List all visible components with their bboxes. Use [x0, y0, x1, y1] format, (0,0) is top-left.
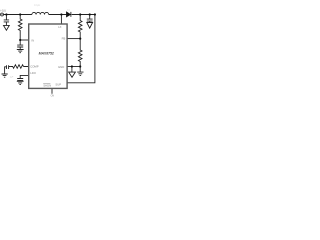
junction C3/rail	[89, 13, 91, 15]
wire FB pin	[67, 38, 80, 40]
junction C1/rail	[5, 13, 7, 15]
resistor R-IN x20	[18, 15, 22, 41]
ground triangle under C1	[4, 25, 10, 30]
svg-text:LDO: LDO	[30, 71, 37, 75]
capacitor C2	[17, 40, 23, 49]
wire rail after diode	[72, 14, 95, 16]
svg-text:+5V: +5V	[0, 9, 7, 13]
terminal plus mark	[1, 14, 3, 16]
background	[0, 0, 100, 100]
svg-text:COMP: COMP	[30, 64, 39, 68]
svg-text:10µH: 10µH	[34, 3, 40, 7]
resistor R-COMP horizontal	[10, 65, 28, 69]
wire LX	[60, 15, 62, 25]
junction IN node	[19, 39, 21, 41]
wire rail to diode	[49, 14, 67, 16]
ground triangle GND	[69, 72, 76, 77]
ground COMP three-line	[2, 74, 8, 77]
wire SHDN stub	[51, 89, 53, 94]
svg-text:SUP: SUP	[55, 82, 61, 86]
ground triangle C3	[87, 23, 93, 29]
resistor R2 bottom feedback	[78, 39, 82, 72]
diode D1	[67, 12, 71, 17]
junction SUP-net/rail	[94, 13, 96, 15]
IC U1 MAX8752 box	[29, 24, 67, 88]
inductor L1	[32, 12, 49, 14]
junction R1/rail	[79, 13, 81, 15]
svg-text:IN: IN	[31, 39, 34, 43]
capacitor C1 input left	[4, 15, 9, 26]
wire IN pin	[20, 39, 29, 41]
junction GND net left	[71, 65, 73, 67]
wire GND drop	[71, 67, 73, 73]
junction R-IN/rail	[19, 13, 21, 15]
input terminal VIN	[1, 13, 4, 16]
svg-text:FB: FB	[62, 37, 66, 41]
ground LDO three-line	[17, 81, 24, 84]
svg-text:SHDN: SHDN	[43, 84, 51, 88]
SHDN overline	[43, 82, 50, 84]
resistor R1 top feedback	[78, 15, 82, 39]
ground C2 three-line	[17, 50, 24, 53]
wire LDO pin	[20, 75, 29, 78]
junction GND net right	[79, 65, 81, 67]
capacitor C3 output	[87, 15, 93, 23]
wire SUP net right side	[67, 15, 95, 83]
svg-text:GND: GND	[58, 65, 64, 69]
svg-text:LX: LX	[58, 25, 61, 29]
ground R2 three-line	[77, 72, 83, 75]
node FB	[79, 38, 81, 40]
junction LX/rail	[60, 13, 62, 15]
wire GND pin	[67, 66, 80, 68]
wire top rail left	[4, 14, 32, 16]
svg-text:ON: ON	[51, 96, 55, 98]
capacitor C-LDO	[17, 79, 23, 82]
capacitor C-COMP	[5, 65, 11, 74]
svg-text:MAX8752: MAX8752	[39, 52, 54, 56]
